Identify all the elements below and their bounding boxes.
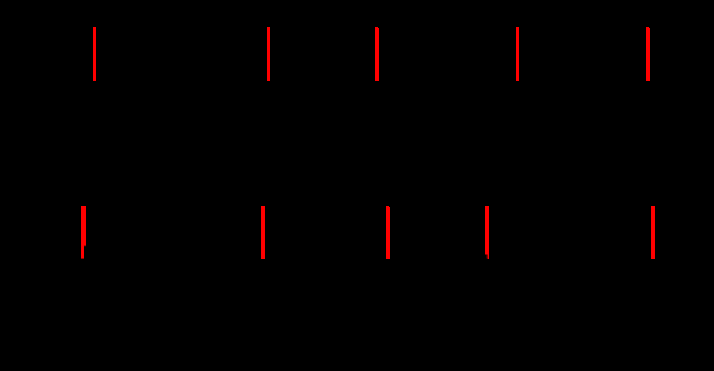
capacitor C1 (highlighted red) xyxy=(93,27,96,81)
resistor R3 (highlighted red, double stroke) xyxy=(386,206,390,259)
wire: middle rail bus xyxy=(20,149,694,152)
capacitor C3 (highlighted red, double stroke) xyxy=(375,27,379,81)
resistor R1 (highlighted red, double stroke) xyxy=(81,206,86,259)
capacitor C2 (highlighted red) xyxy=(267,27,270,81)
wire: R3 lower lead xyxy=(386,259,389,300)
wire: C3 lower lead xyxy=(375,81,378,150)
wire: R1 lower lead xyxy=(81,259,84,300)
resistor R2 (highlighted red) xyxy=(261,206,265,259)
capacitor C5 (highlighted red, double stroke) xyxy=(646,27,650,81)
wire: C5 lower lead xyxy=(646,81,649,150)
wire: R5 lower lead xyxy=(652,259,655,300)
wire: R2 lower lead xyxy=(262,259,265,300)
capacitor C4 (highlighted red) xyxy=(516,27,519,81)
wire: C2 lower lead xyxy=(267,81,270,150)
wire: bottom rail bus xyxy=(20,299,694,302)
wire: top rail bus xyxy=(20,12,694,15)
wire: C1 lower lead xyxy=(93,81,96,150)
wire: R4 lower lead xyxy=(486,259,489,300)
resistor R5 (highlighted red) xyxy=(651,206,655,259)
resistor R4 (highlighted red, double stroke) xyxy=(485,206,489,259)
wire: C4 lower lead xyxy=(516,81,519,150)
